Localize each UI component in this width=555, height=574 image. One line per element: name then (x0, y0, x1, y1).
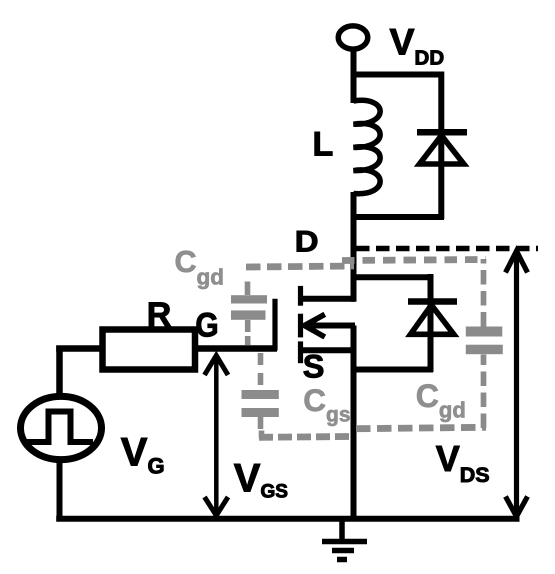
wire right vertical to diode (438, 72, 444, 133)
dashed drain net line (356, 246, 538, 252)
svg-text:Cgs: Cgs (303, 382, 350, 427)
wire resistor to source left (56, 345, 103, 352)
dashed top edge (246, 266, 354, 267)
V_DS arrow (506, 251, 528, 517)
wire source to bottom rail (57, 462, 63, 520)
capacitor C_ds (gray, labeled C_gd) (466, 327, 503, 355)
wire top horizontal to diode branch (351, 72, 444, 78)
channel top segment (298, 286, 303, 306)
svg-text:D: D (295, 226, 319, 259)
svg-text:VDD: VDD (390, 21, 445, 70)
dashed left upper stub (245, 282, 251, 296)
dashed bottom edge (259, 433, 352, 441)
wire gate (195, 345, 277, 352)
svg-text:R: R (147, 296, 172, 334)
svg-text:Cgd: Cgd (175, 245, 225, 290)
svg-text:G: G (195, 306, 218, 344)
wire bottom of diode branch (351, 214, 444, 220)
MOSFET Q1 (275, 286, 355, 363)
wire source vertical (351, 326, 357, 520)
capacitor C_gs (gray) (242, 390, 279, 417)
diode D1 freewheeling (417, 132, 467, 219)
svg-text:VDS: VDS (436, 438, 490, 487)
wire main vertical (drain) (351, 192, 357, 302)
source V_G pulse generator (21, 396, 102, 459)
drain connection (298, 296, 355, 302)
body diode (408, 274, 457, 372)
svg-text:L: L (313, 126, 334, 164)
ground (322, 517, 367, 560)
dashed below C_gd cap (245, 320, 251, 345)
inductor L (354, 100, 381, 193)
wire terminal to inductor (351, 48, 357, 103)
gate bar (272, 299, 277, 351)
wire drain branch to body diode (354, 274, 431, 280)
dashed right edge lower (481, 355, 487, 429)
svg-text:S: S (303, 348, 325, 384)
svg-text:Cgd: Cgd (416, 378, 466, 423)
svg-text:VGS: VGS (234, 456, 288, 502)
terminal VDD (338, 26, 368, 49)
dashed below gate wire (258, 353, 264, 390)
dashed right edge upper (481, 259, 487, 327)
dashed below C_gs cap (258, 417, 264, 429)
V_GS arrow (205, 356, 229, 516)
parasitic dashed box gray (246, 259, 486, 438)
wire source to body diode bottom (355, 367, 433, 373)
svg-text:VG: VG (121, 431, 165, 479)
channel bottom segment (298, 341, 303, 363)
resistor R (103, 330, 196, 370)
channel middle segment (298, 314, 303, 338)
body arrow (306, 323, 355, 329)
source connection (298, 347, 355, 353)
dashed bottom-left corner (259, 431, 265, 439)
bottom rail (56, 516, 519, 522)
capacitor C_gd (gray) (231, 295, 267, 320)
